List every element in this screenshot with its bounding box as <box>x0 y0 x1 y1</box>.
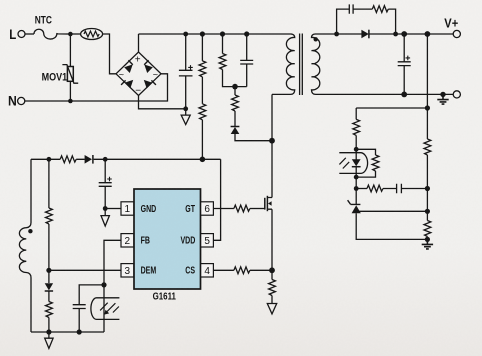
fuse F1 <box>81 29 103 40</box>
wire TL431 ref to divider <box>358 210 427 212</box>
node <box>220 31 225 36</box>
wire primary bottom to drain <box>271 94 273 197</box>
resistor R1 (upper of string) <box>201 34 203 61</box>
resistor R4 <box>234 87 236 95</box>
node <box>101 282 106 287</box>
diode D4 <box>48 270 50 283</box>
resistor R6 (parallel with LED) <box>356 149 375 155</box>
ground (IC) <box>101 209 109 227</box>
node <box>393 32 398 37</box>
optocoupler U2 transistor side <box>103 285 105 332</box>
node drain/clamp <box>269 138 275 144</box>
wire <box>66 33 81 35</box>
resistor R12 (DEM upper) <box>48 159 50 208</box>
diode D3 (aux rectifier) <box>85 155 92 164</box>
node <box>401 31 407 37</box>
IC body U1 <box>134 189 201 289</box>
node <box>425 105 430 110</box>
ground (primary) <box>181 109 190 125</box>
capacitor C2 (snubber) <box>240 34 253 87</box>
diode top-right <box>144 65 153 74</box>
optocoupler U2 LED side <box>339 153 367 174</box>
mosfet Q1 <box>264 198 266 210</box>
resistor R2 (lower of string) <box>199 104 206 120</box>
terminal output return <box>453 91 460 98</box>
wire N to bridge <box>25 74 168 101</box>
diode bottom-left <box>125 80 134 89</box>
diode bottom-right <box>144 80 153 89</box>
node <box>425 31 431 37</box>
capacitor C7 (comp network) <box>383 184 427 194</box>
capacitor C1 (bulk, electrolytic) <box>179 34 193 109</box>
pin 5 box <box>201 234 214 247</box>
resistor R7 (opto series) <box>355 108 357 119</box>
primary winding <box>272 34 295 94</box>
node <box>47 157 52 162</box>
node <box>46 329 51 334</box>
resistor R9 (divider upper) <box>424 139 431 155</box>
wire bridge - to ground node <box>139 96 186 109</box>
light arrows (phototransistor) <box>106 303 119 313</box>
pin 2 box <box>121 234 134 247</box>
resistor R14 (gate) <box>213 208 234 210</box>
ground (output earth) <box>440 92 445 97</box>
shunt regulator U3 (TL431) <box>355 189 357 205</box>
node DEM <box>46 268 51 273</box>
resistor R11 (comp network) <box>356 188 367 190</box>
node <box>425 186 430 191</box>
thermistor NTC <box>34 29 66 39</box>
node <box>200 157 206 163</box>
wire to pin 3 <box>49 269 121 271</box>
varistor MOV1 <box>69 34 71 101</box>
node <box>401 92 407 98</box>
node primary ground <box>183 106 188 111</box>
terminal N <box>18 97 25 104</box>
node <box>334 32 339 37</box>
wire fuse to bridge <box>103 34 116 74</box>
phase dot (aux) <box>28 229 32 233</box>
capacitor C3 (VCC, electrolytic) <box>99 159 112 208</box>
light arrows (LED) <box>339 158 349 169</box>
diode D2 (output rectifier) <box>361 30 368 39</box>
wire secondary top rail <box>315 33 453 35</box>
terminal L <box>18 31 25 38</box>
secondary winding <box>312 34 320 94</box>
resistor R8 (secondary snubber) <box>372 6 388 13</box>
resistor R15 (CS) <box>213 269 234 271</box>
ground (TL431 earth) <box>422 239 433 249</box>
capacitor C6 (output, electrolytic) <box>398 34 411 94</box>
wire to pin 1 <box>105 208 121 210</box>
node <box>200 31 205 36</box>
pin 3 box <box>121 264 134 277</box>
pin 4 box <box>201 264 214 277</box>
bridge rectifier <box>116 52 161 96</box>
ground (sense) <box>267 304 276 314</box>
ground (aux) <box>45 332 53 348</box>
resistor R10 (divider lower) <box>424 221 431 237</box>
node <box>103 157 108 162</box>
node <box>354 186 359 191</box>
resistor R13 <box>48 291 50 302</box>
capacitor C5 (secondary snubber) <box>337 4 373 34</box>
wire secondary bottom rail <box>319 93 453 95</box>
aux winding L1 <box>19 159 31 332</box>
wire <box>355 177 357 188</box>
wire FB <box>104 240 121 285</box>
resistor R3 (snubber) <box>222 34 224 54</box>
wire HV rail <box>139 33 292 35</box>
terminal V+ <box>453 30 460 37</box>
wire bridge + to rail <box>138 34 140 52</box>
node <box>103 206 108 211</box>
diode D1 (clamp) <box>231 126 240 128</box>
diode top-left <box>124 65 133 74</box>
wire L to NTC <box>25 33 34 35</box>
node <box>354 175 359 180</box>
node <box>244 31 249 36</box>
resistor R16 (sense) <box>271 270 273 279</box>
resistor R5 (aux) <box>60 156 76 163</box>
phase dot (secondary) <box>314 37 318 41</box>
wire V+ sense <box>426 34 428 139</box>
node snubber <box>232 84 238 90</box>
capacitor C4 (FB filter) <box>73 285 104 332</box>
node <box>183 32 188 37</box>
node <box>425 209 430 214</box>
node <box>77 329 82 334</box>
transformer core <box>300 34 303 96</box>
node <box>425 237 430 242</box>
node MOV-N junction <box>68 99 73 104</box>
node <box>354 147 359 152</box>
wire aux rail <box>31 158 221 160</box>
wire <box>356 107 427 109</box>
wire VDD feed <box>213 159 220 240</box>
pin 1 box <box>121 202 134 215</box>
wire primary bottom rail <box>31 331 104 333</box>
pin 6 box <box>201 202 214 215</box>
node L-MOV junction <box>68 32 73 37</box>
node CS <box>269 267 275 273</box>
